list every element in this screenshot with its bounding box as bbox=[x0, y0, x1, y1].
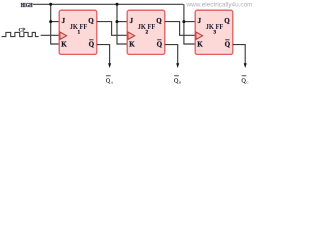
svg-text:B: B bbox=[179, 81, 182, 85]
node junction dot FF3 J bbox=[182, 20, 185, 23]
node junction dot rail-FF2 bbox=[116, 3, 119, 6]
node junction dot rail-FF1 bbox=[49, 3, 52, 6]
svg-text:Q: Q bbox=[156, 17, 162, 25]
flip-flop U1 box bbox=[59, 10, 97, 54]
svg-text:Q: Q bbox=[157, 40, 163, 48]
wire Q1bar output down bbox=[97, 45, 110, 64]
wire HIGH rail bbox=[33, 3, 184, 5]
clock waveform CP bbox=[2, 32, 39, 36]
svg-text:J: J bbox=[62, 17, 66, 25]
label Qc-bar output bbox=[241, 76, 249, 85]
svg-text:CP: CP bbox=[19, 29, 26, 34]
node junction dot FF2 J bbox=[116, 20, 119, 23]
wire FF1 J stub bbox=[51, 21, 60, 23]
arrowhead Q3bar bbox=[244, 63, 247, 68]
svg-text:Q: Q bbox=[89, 40, 95, 48]
svg-text:2: 2 bbox=[146, 29, 149, 35]
svg-text:K: K bbox=[197, 41, 203, 49]
wire Q2bar output down bbox=[165, 45, 178, 64]
node junction dot FF1 J bbox=[49, 20, 52, 23]
svg-text:HIGH: HIGH bbox=[21, 2, 33, 9]
arrowhead Q1bar bbox=[108, 63, 111, 68]
svg-text:Q: Q bbox=[88, 17, 94, 25]
svg-text:K: K bbox=[129, 41, 135, 49]
wire HIGH drop to FF1 J/K bbox=[51, 4, 60, 44]
svg-text:1: 1 bbox=[78, 29, 81, 35]
svg-text:J: J bbox=[198, 17, 202, 25]
wire Q1 to FF2 clock bbox=[97, 22, 128, 36]
label Qa-bar output bbox=[106, 76, 114, 85]
label Qb-bar output bbox=[174, 76, 182, 85]
wire clock line into FF1 bbox=[41, 34, 60, 36]
flip-flop U2 box bbox=[127, 10, 165, 54]
wire FF3 J stub bbox=[184, 21, 195, 23]
svg-text:C: C bbox=[246, 81, 249, 85]
wire HIGH drop to FF3 J/K bbox=[184, 4, 195, 44]
svg-text:A: A bbox=[111, 81, 114, 85]
wire Q3bar output down bbox=[233, 45, 245, 64]
wire HIGH drop to FF2 J/K bbox=[117, 4, 127, 44]
flip-flop U3 box bbox=[195, 10, 233, 54]
svg-text:Q: Q bbox=[225, 40, 231, 48]
svg-text:www.electrically4u.com: www.electrically4u.com bbox=[185, 3, 252, 9]
svg-text:J: J bbox=[130, 17, 134, 25]
wire FF2 J stub bbox=[117, 21, 127, 23]
svg-text:K: K bbox=[61, 41, 67, 49]
wire Q2 to FF3 clock bbox=[165, 22, 196, 36]
arrowhead Q2bar bbox=[176, 63, 179, 68]
svg-text:3: 3 bbox=[214, 29, 217, 35]
svg-text:Q: Q bbox=[224, 17, 230, 25]
